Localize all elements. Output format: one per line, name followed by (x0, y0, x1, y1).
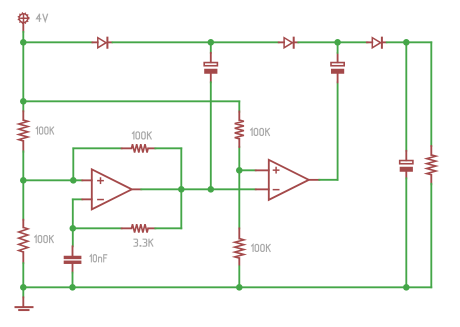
junction: C4 / bottom bus (69, 284, 76, 291)
wire: feedback top left segment (73, 147, 121, 149)
wire: left column between +input rail and R7 (22, 180, 24, 220)
wire: feedback bottom left segment (73, 227, 122, 229)
junction: top rail / C1 column (208, 39, 215, 46)
junction: left column / +input wire (20, 177, 27, 184)
diode D2 (279, 38, 299, 48)
wire: non-inverting input net (to U1 +) (23, 179, 82, 181)
wire: right edge column upper (430, 42, 432, 146)
value label 10nF (90, 255, 107, 262)
wire: left column stub above R1 (22, 101, 24, 111)
wire: top rail, right segment (387, 41, 432, 43)
wire: U1 inverting input net (73, 198, 83, 200)
op-amp U1 (82, 169, 141, 209)
wire: top rail, segment between D2 and D3 (298, 41, 367, 43)
wire: C4 column upper stub (72, 228, 74, 246)
resistor R1 100K (left upper, vertical) (19, 111, 28, 152)
wire: ground stub (22, 287, 24, 297)
capacitor C2 (polarized) (331, 53, 344, 83)
diode D1 (92, 38, 112, 48)
junction: output net / C1 column (208, 186, 215, 193)
wire: U2 output to C2 column (319, 179, 337, 181)
junction: bottom bus left / ground (20, 284, 27, 291)
wire: C1 column lower (to U1 output net) (210, 82, 212, 189)
value label 100K (left lower resistor) (35, 236, 54, 243)
junction: C3 column / bottom bus (403, 284, 410, 291)
junction: supply / top rail / left column (20, 39, 27, 46)
resistor R6 (right edge, vertical) (427, 146, 436, 184)
power supply symbol P1 (+4V source) (18, 13, 29, 32)
resistor R7 100K (left lower, vertical) (19, 220, 28, 263)
junction: divider / bottom bus (236, 284, 243, 291)
wire: feedback top right + right side vertical x=181 (155, 147, 181, 149)
resistor R2 100K (positive feedback, horizontal) (122, 144, 156, 152)
op-amp U2 (256, 160, 320, 200)
wire: top rail, segment between D1 and D2 (113, 41, 279, 43)
wire: right edge column lower to bottom bus (430, 184, 432, 288)
wire: top rail, left segment (23, 41, 92, 43)
wire: bottom bus (23, 286, 431, 288)
wire: C2 column upper stub (337, 42, 339, 53)
wire: left column upper (rail to mid rail) (22, 42, 24, 101)
wire: feedback bottom right segment (155, 227, 181, 229)
wire: divider column to bottom bus (238, 266, 240, 287)
ground symbol GND (16, 297, 33, 310)
value label 4V (37, 14, 48, 21)
capacitor C4 10nF (64, 246, 82, 272)
wire: C4 to bottom bus (72, 273, 74, 288)
junction: output net / feedback right side (178, 186, 185, 193)
junction: top rail / C2 column (334, 39, 341, 46)
junction: -input branch / feedback bottom / C4 (70, 225, 77, 232)
junction: top rail / C3 column (403, 39, 410, 46)
wire: supply pin to top rail (22, 32, 24, 42)
wire: divider column upper green (238, 147, 240, 229)
wire: feedback branch vertical x=73 (72, 148, 74, 180)
resistor R4 100K (divider upper, vertical) (235, 111, 244, 147)
wire: C3 column upper (405, 42, 407, 151)
wire: C3 column lower to bottom bus (405, 178, 407, 287)
junction: left column / mid rail (20, 98, 27, 105)
wire: left column between R1 and +input rail (22, 151, 24, 180)
value label 100K (R5) (252, 244, 271, 251)
wire: C1 column upper stub (210, 42, 212, 53)
capacitor C3 (polarized) (400, 151, 413, 179)
value label 3.3K (134, 239, 153, 246)
wire: U2 non-inverting input net (239, 169, 255, 171)
capacitor C1 (polarized) (204, 53, 217, 83)
value label 100K (R2) (132, 132, 151, 139)
wire: left column to bottom bus (22, 263, 24, 287)
resistor R3 3.3K (negative feedback, horizontal) (122, 224, 156, 232)
junction: divider mid / U2 + input (236, 167, 243, 174)
value label 100K (R4) (251, 128, 270, 135)
value label 100K (R1) (36, 127, 53, 134)
junction: +input / feedback top branch (70, 177, 77, 184)
resistor R5 100K (divider lower, vertical) (235, 228, 244, 264)
wire: U1 output net (to U2 inverting input) (141, 188, 255, 190)
wire: mid rail to divider column (23, 100, 239, 102)
diode D3 (367, 38, 387, 48)
